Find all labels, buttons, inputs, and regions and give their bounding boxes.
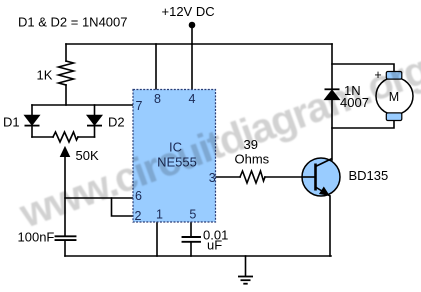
svg-text:1: 1 [156, 208, 163, 222]
wire C1 bottom lead [64, 241, 66, 256]
svg-text:D1: D1 [3, 115, 20, 130]
wire bottom rail [65, 255, 331, 257]
wire pot right lead [78, 136, 95, 138]
diode D1 [25, 115, 40, 125]
wire 1K top lead [65, 44, 67, 61]
diode D3 1N4007 flyback [325, 89, 340, 99]
svg-text:3: 3 [209, 171, 216, 185]
wire D1 top lead [31, 105, 33, 115]
wire pin8 lead [155, 44, 157, 90]
svg-text:+12V DC: +12V DC [162, 4, 215, 19]
svg-text:1K: 1K [37, 68, 53, 83]
IC label [157, 140, 197, 170]
svg-text:uF: uF [207, 238, 222, 253]
wire pin3 to resistor [216, 176, 241, 178]
pin numbers [135, 92, 216, 223]
wire pot left lead [32, 136, 53, 138]
node +12V junction dot [189, 22, 196, 29]
svg-text:4: 4 [189, 92, 196, 106]
potentiometer VR1 50K track [53, 132, 78, 142]
svg-text:D2: D2 [108, 115, 125, 130]
wire emitter lead [329, 196, 331, 256]
potentiometer wiper arrow [61, 147, 70, 157]
svg-text:7: 7 [136, 99, 143, 113]
wire left horizontal to pin7 [32, 104, 133, 106]
wire pin4 lead [191, 44, 193, 90]
diode D2 [87, 115, 102, 125]
wire resistor to base [265, 176, 302, 178]
watermark text overlay [13, 46, 421, 237]
wire diode to transistor collector [331, 100, 333, 160]
wire wiper vertical [64, 155, 66, 236]
svg-text:D1 & D2 = 1N4007: D1 & D2 = 1N4007 [18, 15, 127, 30]
wire pin1 lead [156, 222, 158, 256]
resistor R2 39 Ohms [240, 171, 265, 183]
svg-text:8: 8 [154, 92, 161, 106]
motor M [376, 72, 413, 121]
wire D2 bottom lead [94, 126, 96, 137]
transistor Q1 BD135 [302, 158, 340, 196]
wire right branch vertical top [331, 44, 333, 89]
wire ground stub [245, 256, 247, 276]
wire top rail [66, 43, 332, 45]
svg-text:BD135: BD135 [349, 168, 389, 183]
wire pin5 lead [190, 222, 192, 237]
wire +12V feed [191, 27, 193, 44]
capacitor C1 100nF [56, 236, 76, 240]
wire motor top branch [332, 64, 394, 72]
resistor R1 1K [59, 61, 74, 85]
wire C2 bottom lead [190, 242, 192, 256]
svg-text:2: 2 [135, 209, 142, 223]
svg-text:50K: 50K [76, 148, 99, 163]
wire pin6 horizontal [65, 197, 133, 199]
wire D1 bottom lead [31, 126, 33, 137]
capacitor C2 0.01uF [183, 237, 201, 242]
IC U1 NE555 body [133, 90, 216, 223]
ground [238, 277, 253, 284]
wire D2 top lead [94, 105, 96, 115]
wire pin2 dogleg [112, 198, 134, 216]
wire 1K bottom lead [65, 85, 67, 105]
svg-text:5: 5 [189, 208, 196, 222]
wire motor bottom branch [332, 121, 394, 129]
